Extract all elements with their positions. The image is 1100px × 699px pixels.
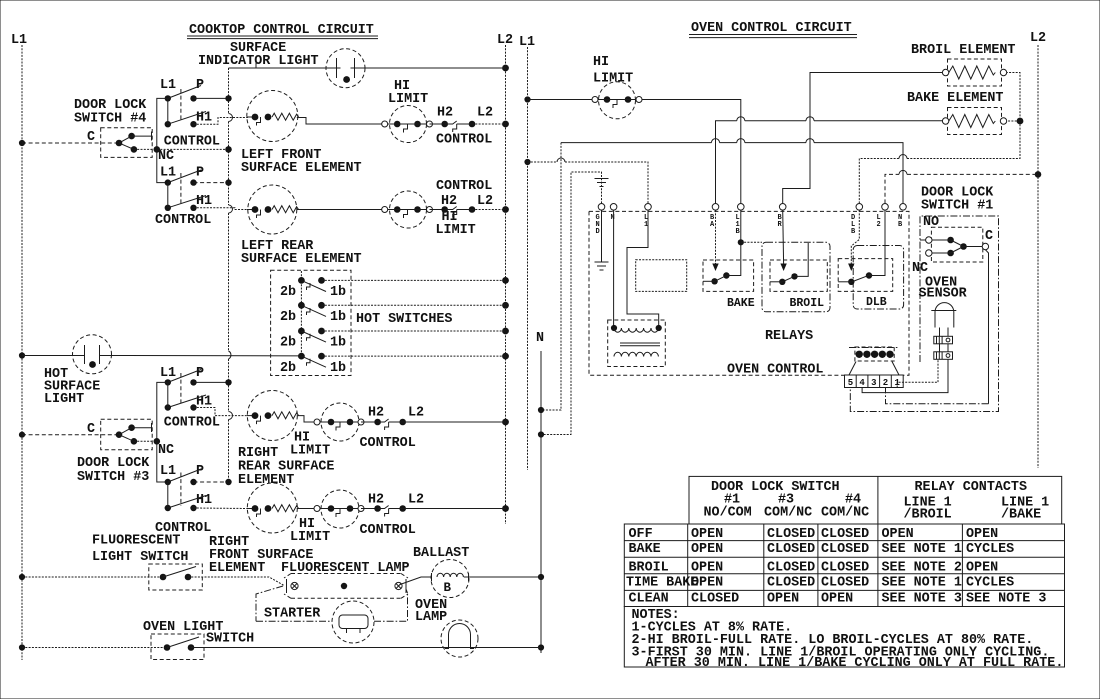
svg-text:OPEN: OPEN: [691, 576, 723, 591]
wire L2 oven rail: [1037, 45, 1039, 468]
svg-text:LAMP: LAMP: [415, 610, 447, 625]
wire hot surface light row: [22, 355, 85, 357]
svg-text:CONTROL: CONTROL: [164, 416, 220, 431]
svg-text:OPEN: OPEN: [966, 527, 998, 542]
junction L1 oven rail to L1 terminal wire: [524, 159, 530, 165]
wire hot switch 1 to L2: [322, 279, 506, 281]
ground chassis symbol upper: [595, 179, 609, 187]
svg-text:B: B: [851, 228, 856, 236]
svg-text:1b: 1b: [330, 361, 346, 376]
junction NC at L1 feed rail: [154, 146, 161, 153]
transformer oven control: [608, 320, 666, 367]
svg-text:2b: 2b: [280, 361, 296, 376]
switch oven light switch: [151, 634, 204, 660]
svg-text:OPEN: OPEN: [821, 592, 853, 607]
oven control enclosure: [589, 211, 909, 375]
thermostat hi limit row1: [382, 79, 433, 143]
junction L2 rail row1: [502, 121, 509, 128]
wire hop of NC bus over row1 element wire: [229, 114, 233, 122]
svg-text:NC: NC: [158, 149, 174, 164]
junction N rail to fluorescent lamp: [538, 574, 544, 580]
svg-text:B: B: [898, 221, 903, 229]
switch door lock 1: [920, 227, 989, 262]
junction L1 rail to door lock switch 4: [19, 140, 25, 146]
svg-text:OPEN: OPEN: [966, 561, 998, 576]
wire hi limit to L1B terminal: [642, 100, 741, 204]
svg-text:STARTER: STARTER: [264, 607, 321, 622]
switch surface control P/L1 row1: [160, 78, 232, 122]
svg-text:CLOSED: CLOSED: [767, 542, 815, 557]
svg-text:SEE NOTE 3: SEE NOTE 3: [966, 592, 1046, 607]
wire hop L1 wire over neutral riser: [557, 158, 565, 162]
svg-text:H1: H1: [196, 493, 212, 508]
wire hot switch 2 to L2: [322, 304, 506, 306]
svg-text:1b: 1b: [330, 285, 346, 300]
terminal L1: [645, 204, 652, 211]
inductor ballast: [431, 560, 469, 598]
svg-text:OPEN: OPEN: [691, 542, 723, 557]
wire starter right to lamp: [374, 589, 408, 621]
svg-text:DOOR LOCK: DOOR LOCK: [77, 456, 150, 471]
svg-text:H2: H2: [437, 106, 453, 121]
switch hot switch 4: [280, 353, 346, 376]
svg-text:C: C: [985, 229, 993, 244]
svg-text:LIGHT SWITCH: LIGHT SWITCH: [92, 550, 188, 565]
junction NC at bus: [225, 146, 232, 153]
svg-text:OPEN: OPEN: [882, 527, 914, 542]
svg-text:L1: L1: [160, 366, 176, 381]
svg-text:/BAKE: /BAKE: [1001, 508, 1041, 523]
wire H1 row2 to element: [194, 208, 248, 210]
svg-text:A: A: [710, 221, 715, 229]
wire L1 to C contact: [22, 142, 119, 144]
wire hop bake element wire over broil drop: [806, 117, 814, 121]
wire L1 oven rail: [527, 47, 529, 470]
wire sensor to pin 4: [862, 359, 948, 392]
wire NC to bus: [134, 148, 229, 150]
junction N rail to GND wire: [538, 431, 544, 437]
svg-text:P: P: [196, 166, 204, 181]
junction L2 rail row4: [502, 505, 509, 512]
junction L1 rail to hot surface light: [19, 352, 25, 358]
svg-text:LIMIT: LIMIT: [290, 444, 330, 459]
resistor left rear surface element: [247, 185, 299, 234]
wire ballast to N: [464, 576, 541, 578]
svg-text:/BROIL: /BROIL: [904, 508, 952, 523]
svg-text:P: P: [196, 464, 204, 479]
svg-text:L2: L2: [408, 493, 424, 508]
svg-text:L1: L1: [160, 166, 176, 181]
relay DLB: [838, 210, 903, 309]
svg-text:SEE NOTE 3: SEE NOTE 3: [882, 592, 962, 607]
wire hop bake element wire over L1B: [737, 117, 745, 121]
svg-text:2b: 2b: [280, 310, 296, 325]
svg-text:NC: NC: [158, 443, 174, 458]
svg-text:RELAY CONTACTS: RELAY CONTACTS: [915, 480, 1028, 495]
title OVEN CONTROL CIRCUIT: [689, 21, 857, 38]
junction L2 rail hot switch 4: [502, 353, 509, 360]
svg-text:OPEN: OPEN: [691, 561, 723, 576]
svg-text:H1: H1: [196, 111, 212, 126]
terminal BR: [779, 204, 786, 211]
wire oven light row from L1: [22, 647, 167, 649]
resistor bake element: [942, 108, 1006, 135]
wire L1 left supply rail: [21, 45, 23, 660]
connector oven control plug: [845, 347, 904, 388]
wire element row2 to hi limit: [297, 209, 385, 211]
terminal NB: [900, 204, 907, 211]
junction L2 rail surface indicator light: [502, 65, 509, 72]
switch surface control P/L1 row2: [160, 166, 232, 207]
svg-text:1b: 1b: [330, 310, 346, 325]
svg-text:L2: L2: [477, 106, 493, 121]
svg-text:3: 3: [871, 378, 876, 388]
wire label leader: [255, 57, 257, 68]
lamp oven lamp: [441, 620, 478, 657]
thermistor oven sensor: [931, 303, 956, 360]
junction L1 rail to door lock switch 3: [19, 432, 25, 438]
svg-text:P: P: [196, 366, 204, 381]
terminal GND: [598, 204, 605, 211]
svg-text:SWITCH #4: SWITCH #4: [74, 112, 146, 127]
svg-text:CONTROL: CONTROL: [360, 436, 416, 451]
switch surface control P/L1 row3: [160, 366, 232, 406]
svg-text:2: 2: [877, 221, 881, 229]
thermostat oven hi limit: [592, 82, 642, 119]
svg-text:SWITCH #3: SWITCH #3: [77, 470, 149, 485]
junction L2 rail hot switch 1: [502, 277, 509, 284]
svg-text:N: N: [536, 331, 544, 346]
wire hop of NC bus over row3 element wire: [229, 412, 233, 420]
svg-text:4: 4: [859, 378, 865, 388]
svg-text:LIMIT: LIMIT: [436, 223, 476, 238]
terminal N: [610, 204, 617, 211]
wire door lock 1 enclosure loop to pin 5: [850, 216, 998, 412]
svg-text:SURFACE ELEMENT: SURFACE ELEMENT: [241, 161, 362, 176]
wire fluorescent row from L1: [22, 576, 163, 578]
junction L2 rail row3: [502, 419, 509, 426]
svg-text:LIGHT: LIGHT: [44, 392, 84, 407]
svg-text:B: B: [736, 228, 741, 236]
wire NC S3 to feed rail: [134, 440, 157, 442]
switch hot switch 3: [280, 328, 346, 351]
svg-text:COM/NC: COM/NC: [764, 506, 812, 521]
junction L2 oven rail to L2 terminal wire: [1035, 171, 1042, 178]
svg-text:2: 2: [883, 378, 888, 388]
svg-text:SEE NOTE 1: SEE NOTE 1: [882, 576, 962, 591]
thermostat hi limit row3: [290, 403, 364, 459]
svg-text:CLOSED: CLOSED: [821, 527, 869, 542]
junction L1 rail to fluorescent light switch: [19, 574, 25, 580]
switch surface control H1 row4: [165, 482, 212, 511]
junction L1 oven rail to hi limit: [524, 96, 530, 102]
table mode rows: [624, 524, 1064, 607]
switch surface control H1 row2: [165, 183, 212, 211]
switch control contact row4: [360, 493, 506, 539]
svg-text:BALLAST: BALLAST: [413, 546, 469, 561]
svg-text:CLOSED: CLOSED: [691, 592, 739, 607]
wire DLB terminal to elements return: [859, 73, 1020, 204]
svg-text:SEE NOTE 2: SEE NOTE 2: [882, 561, 962, 576]
switch hot switch 2: [280, 302, 346, 325]
wire L2 terminal to L2 rail: [885, 174, 1038, 203]
terminal BA: [712, 204, 719, 211]
wire hop neutral over BA: [712, 139, 720, 143]
wire hop of NC bus over hot surface light wire: [229, 351, 231, 359]
wire hop DLB wire over NB riser: [899, 155, 907, 159]
wire N neutral rail: [540, 351, 542, 653]
wire L1 terminal to transformer primary: [627, 210, 659, 326]
wire neutral riser: [541, 143, 561, 410]
svg-text:2b: 2b: [280, 285, 296, 300]
wire L1 contact feed rail S3: [157, 382, 168, 482]
lamp surface indicator light: [326, 49, 365, 88]
svg-text:D: D: [596, 228, 600, 236]
svg-text:CLOSED: CLOSED: [767, 561, 815, 576]
junction bake element return: [1017, 118, 1024, 125]
svg-text:R: R: [778, 221, 783, 229]
wire L1 oven to hi limit: [528, 99, 593, 101]
terminal L1B: [738, 204, 745, 211]
junction N rail to NB wire: [538, 407, 544, 413]
svg-text:OPEN: OPEN: [767, 592, 799, 607]
terminal DLB: [856, 204, 863, 211]
svg-text:L1: L1: [160, 78, 176, 93]
switch surface control P/L1 row4: [160, 464, 232, 506]
svg-text:SENSOR: SENSOR: [919, 287, 968, 302]
lamp hot surface light: [73, 335, 112, 374]
junction L2 rail row2: [502, 206, 509, 213]
svg-text:LIMIT: LIMIT: [290, 530, 330, 545]
wire L1B branch to broil relay: [741, 241, 762, 243]
junction L2 rail hot switch 2: [502, 302, 509, 309]
wire L1B terminal into control: [740, 210, 742, 242]
wire hop of NC bus over row2 element wire: [229, 205, 233, 213]
svg-text:SURFACE ELEMENT: SURFACE ELEMENT: [241, 252, 362, 267]
svg-text:BROIL: BROIL: [629, 561, 669, 576]
svg-text:CLOSED: CLOSED: [821, 561, 869, 576]
switch surface control H1 row3: [165, 382, 212, 410]
resistor right front surface element: [247, 483, 299, 533]
wire L1 contact feed rail S4: [157, 98, 168, 182]
svg-text:OVEN CONTROL CIRCUIT: OVEN CONTROL CIRCUIT: [691, 21, 852, 36]
svg-text:AFTER 30 MIN. LINE 1/BAKE CYCL: AFTER 30 MIN. LINE 1/BAKE CYCLING ONLY A…: [646, 656, 1064, 671]
wire cooktop NC bus (vertical, with wire hops): [228, 68, 230, 484]
switch surface control H1 row1: [165, 98, 212, 127]
wire N terminal to transformer primary: [613, 210, 615, 326]
svg-text:CONTROL: CONTROL: [436, 179, 492, 194]
wire C contact to pin 2: [985, 250, 988, 404]
wire H1 row1 to element: [194, 118, 248, 125]
title COOKTOP CONTROL CIRCUIT: [187, 23, 378, 39]
svg-text:2b: 2b: [280, 336, 296, 351]
svg-text:L2: L2: [1030, 31, 1046, 46]
svg-text:OPEN: OPEN: [691, 527, 723, 542]
junction L1 rail to oven light switch: [19, 644, 25, 650]
wire hot switch 3 to L2: [322, 330, 506, 332]
svg-text:HOT SWITCHES: HOT SWITCHES: [356, 312, 452, 327]
svg-text:1b: 1b: [330, 336, 346, 351]
svg-text:ELEMENT: ELEMENT: [209, 561, 265, 576]
wire lamp to starter left: [256, 586, 332, 621]
svg-text:SEE NOTE 1: SEE NOTE 1: [882, 542, 962, 557]
svg-text:INDICATOR LIGHT: INDICATOR LIGHT: [198, 54, 319, 69]
svg-text:COM/NC: COM/NC: [821, 506, 869, 521]
wire hot switch 4 to L2: [322, 355, 506, 357]
svg-text:BAKE ELEMENT: BAKE ELEMENT: [907, 91, 1003, 106]
wire GND to ground: [601, 210, 603, 261]
svg-text:CLOSED: CLOSED: [767, 576, 815, 591]
svg-text:SWITCH #1: SWITCH #1: [921, 199, 993, 214]
svg-text:B: B: [444, 581, 452, 595]
svg-text:L2: L2: [408, 406, 424, 421]
svg-text:CLOSED: CLOSED: [821, 576, 869, 591]
junction L2 rail hot switch 3: [502, 328, 509, 335]
svg-text:CYCLES: CYCLES: [966, 576, 1014, 591]
wire sensor to pin 1: [897, 359, 938, 387]
fluorescent lamp: [284, 574, 408, 599]
ground symbol inside control: [595, 262, 609, 270]
wire BA terminal to bake element: [716, 121, 946, 204]
relay BAKE: [703, 210, 755, 310]
junction L1B branch: [738, 239, 744, 245]
resistor right rear surface element: [247, 391, 299, 441]
wire GND terminal to neutral: [541, 172, 602, 435]
wire H1 row3 to element: [194, 408, 248, 416]
svg-text:ELEMENT: ELEMENT: [238, 473, 294, 488]
wire element row4 to hi limit: [297, 508, 317, 510]
svg-text:NC: NC: [912, 261, 928, 276]
svg-text:CYCLES: CYCLES: [966, 542, 1014, 557]
svg-text:HI: HI: [593, 55, 609, 70]
svg-text:CLOSED: CLOSED: [767, 527, 815, 542]
wire surface indicator light row: [229, 67, 337, 69]
svg-text:L2: L2: [477, 194, 493, 209]
wire hop neutral over L1B: [737, 139, 745, 143]
wire L1 to C contact S3: [22, 434, 119, 436]
svg-text:CLEAN: CLEAN: [629, 592, 669, 607]
svg-text:BROIL: BROIL: [790, 297, 825, 310]
wire switch to oven lamp: [191, 647, 541, 649]
switch hot switches bank: [271, 270, 351, 375]
switch control contact row2: [430, 179, 506, 218]
svg-text:H2: H2: [368, 493, 384, 508]
switch control contact row3: [360, 406, 506, 452]
wire hop L2 wire over NB riser: [899, 170, 907, 174]
junction NC S3: [154, 438, 161, 445]
resistor broil element: [942, 59, 1006, 86]
wire neutral to NB terminal: [561, 143, 903, 204]
resistor left front surface element: [247, 91, 299, 142]
svg-text:SWITCH: SWITCH: [206, 632, 254, 647]
svg-text:OFF: OFF: [629, 527, 653, 542]
wire BR terminal to broil element: [783, 73, 946, 204]
svg-text:LIMIT: LIMIT: [388, 92, 428, 107]
wire L1 rail to L1 terminal: [528, 162, 649, 203]
svg-text:DLB: DLB: [866, 296, 887, 309]
switch door lock 4: [101, 128, 153, 158]
wire element row1 to hi limit: [297, 118, 385, 125]
thermostat hi limit row2: [382, 191, 476, 238]
switch fluorescent light switch: [149, 564, 203, 590]
svg-text:CONTROL: CONTROL: [164, 135, 220, 150]
switch door lock 3: [101, 419, 153, 450]
wire element row3 to hi limit: [297, 416, 317, 422]
relay BROIL: [762, 210, 830, 312]
wire L2 cooktop rail: [505, 45, 507, 524]
svg-text:L1: L1: [160, 464, 176, 479]
table door lock switch / relay contacts header: [689, 476, 1062, 524]
svg-text:RELAYS: RELAYS: [765, 329, 813, 344]
svg-text:BROIL ELEMENT: BROIL ELEMENT: [911, 43, 1015, 58]
wire H1 row4 to element: [194, 507, 248, 510]
thermostat hi limit row4: [290, 490, 364, 545]
svg-text:H2: H2: [368, 406, 384, 421]
svg-text:OVEN CONTROL: OVEN CONTROL: [727, 363, 823, 378]
svg-text:NO/COM: NO/COM: [704, 506, 752, 521]
wire switch to fluorescent lamp: [188, 577, 284, 586]
svg-text:CONTROL: CONTROL: [360, 523, 416, 538]
svg-text:CLOSED: CLOSED: [821, 542, 869, 557]
starter: [332, 601, 374, 643]
svg-text:BAKE: BAKE: [727, 297, 755, 310]
switch hot switch 1: [280, 277, 346, 300]
timer module box: [636, 260, 687, 292]
svg-text:FLUORESCENT: FLUORESCENT: [92, 534, 180, 549]
wire hop neutral over broil drop: [806, 139, 814, 143]
junction N rail to oven lamp: [538, 644, 544, 650]
svg-text:5: 5: [848, 378, 853, 388]
svg-text:TIME BAKE: TIME BAKE: [626, 576, 698, 591]
svg-text:LIMIT: LIMIT: [593, 72, 633, 87]
terminal L2: [882, 204, 889, 211]
svg-text:L1: L1: [11, 33, 27, 48]
wire lamp to ballast: [400, 577, 432, 585]
svg-text:CONTROL: CONTROL: [436, 133, 492, 148]
svg-text:BAKE: BAKE: [629, 542, 661, 557]
switch control contact row1: [430, 106, 506, 148]
svg-text:CONTROL: CONTROL: [155, 213, 211, 228]
table notes: [624, 607, 1064, 672]
